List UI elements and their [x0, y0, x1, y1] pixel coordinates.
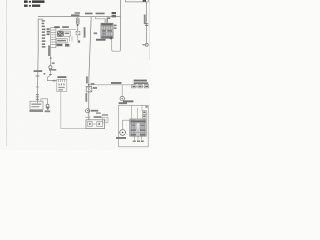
connector feed step from bus	[95, 17, 106, 19]
tiny label 4 near left wire	[44, 73, 46, 75]
label 15A right of center wire	[94, 32, 98, 34]
reference box left of big box	[102, 117, 108, 123]
tick 2 on left wire	[36, 86, 40, 88]
junction dot	[77, 24, 79, 26]
S-connector box with pins	[57, 79, 67, 91]
pins below starter block	[134, 136, 141, 140]
inline connector arrow on stub	[50, 56, 52, 59]
terminal label below bus	[107, 17, 111, 19]
label above reference box	[102, 114, 108, 116]
wire label 0.5 BK/YE	[96, 13, 105, 15]
center feeder wire (slight skew)	[89, 17, 91, 120]
inline connector on right wire	[145, 24, 149, 26]
branch wire labels	[111, 82, 121, 84]
starter connector block hatched	[130, 119, 146, 136]
wire color legend text line 1	[24, 0, 45, 3]
pin labels right of block	[114, 25, 117, 27]
connector row labels right	[134, 80, 147, 82]
ground symbol	[46, 104, 49, 107]
tiny label left of eyelet	[142, 44, 145, 45]
internal wire 2	[136, 108, 138, 120]
wire from S-box down then right	[61, 91, 86, 128]
relay carrier narrow box with strips	[51, 28, 56, 48]
pin labels under relay	[56, 44, 62, 46]
rotated label left of center wire	[86, 76, 88, 83]
wire: main bus line 30	[38, 16, 121, 18]
wire label on left wire	[34, 70, 43, 72]
connector pair row at right end	[132, 85, 149, 88]
splice circle left	[49, 66, 52, 69]
wire label 0.5 BK	[85, 13, 93, 15]
inline connector pair 2	[76, 20, 79, 22]
label below box M	[29, 110, 43, 112]
page left edge line	[6, 0, 8, 146]
wire from ring up to block	[123, 120, 130, 130]
label right of fuse	[93, 87, 97, 89]
label below ring	[116, 137, 126, 139]
wire drop from bus at x77.5	[77, 17, 79, 32]
connector eyelet end of right wire	[145, 43, 148, 46]
marks below	[78, 40, 80, 42]
drop from branch to ground ring	[121, 85, 123, 97]
wire continues down-left long	[36, 48, 39, 103]
wire short horizontal at relay top	[60, 28, 76, 30]
branch wire to right	[89, 84, 132, 86]
fuse box on x77 wire	[76, 31, 80, 35]
connector stack into lower-left box	[36, 94, 39, 99]
relay pin wires	[70, 36, 72, 41]
rotated label left of stub	[48, 45, 50, 56]
wire below splice to S-box	[47, 69, 56, 81]
label below ground	[45, 110, 51, 112]
component box top right (cut off)	[126, 0, 149, 2]
wire: left mid stub	[50, 46, 52, 66]
S-connector label above	[57, 76, 66, 78]
label above 4-5 box	[94, 116, 102, 118]
wire from top right box down	[146, 2, 148, 44]
wire color legend text line 2	[24, 5, 40, 7]
text above relay	[54, 26, 60, 28]
ground ring terminal	[120, 96, 124, 100]
corner label N	[145, 106, 147, 108]
relay contact box	[64, 31, 70, 36]
relay K coil (dark hatched)	[57, 31, 63, 37]
multi-terminal connector block T-series	[101, 23, 113, 38]
bottom right component box outline	[119, 105, 149, 147]
terminal number column beside left wire	[42, 20, 46, 47]
pin tick right of block	[110, 37, 112, 39]
label below connector block	[96, 39, 106, 41]
relay cluster: second label column	[47, 28, 50, 35]
right cells column	[142, 111, 146, 118]
page background	[0, 0, 150, 150]
label above splice circle	[52, 62, 55, 64]
wire from box M to ground	[41, 99, 48, 104]
wire below fuse	[77, 35, 79, 40]
tick on wire	[49, 74, 52, 76]
internal wire 3	[141, 105, 143, 110]
inline connector pair 1	[76, 18, 79, 20]
wire label 1.5 BR/BK	[75, 12, 80, 14]
lower-left component box M	[30, 101, 43, 109]
text above relay right	[62, 26, 69, 28]
label above bottom right box	[123, 100, 133, 102]
terminal mark in top right box	[143, 0, 146, 2]
splice circle on center wire	[86, 109, 90, 113]
wire vertical from top edge at x120.5	[120, 0, 122, 50]
fuse on center wire	[86, 86, 92, 92]
internal wire 1	[131, 105, 133, 119]
junction to right branch	[88, 84, 90, 86]
rotated label below fuse	[85, 93, 87, 102]
tiny label left of S-box	[52, 80, 56, 82]
label 0.5 above branch	[91, 83, 95, 85]
label below splice left	[49, 69, 56, 71]
terminal label 15	[112, 12, 116, 14]
relay name box	[56, 39, 67, 43]
tick on left wire	[35, 75, 39, 77]
wire U-turn to connector pin	[112, 39, 121, 52]
label below ground ring	[119, 102, 127, 104]
inline connector pair 3	[76, 22, 79, 24]
page right edge shade	[148, 0, 150, 60]
connector box top left bracket	[38, 19, 43, 48]
inline 4-5 connector box	[86, 120, 105, 129]
battery terminal ring	[120, 130, 126, 136]
small hatched connector above block	[105, 18, 108, 22]
label right of splice	[91, 110, 99, 112]
wire label rotated right side	[144, 15, 146, 25]
rotated wire label right of x77 wire	[84, 27, 86, 37]
tick below splice	[85, 116, 90, 118]
